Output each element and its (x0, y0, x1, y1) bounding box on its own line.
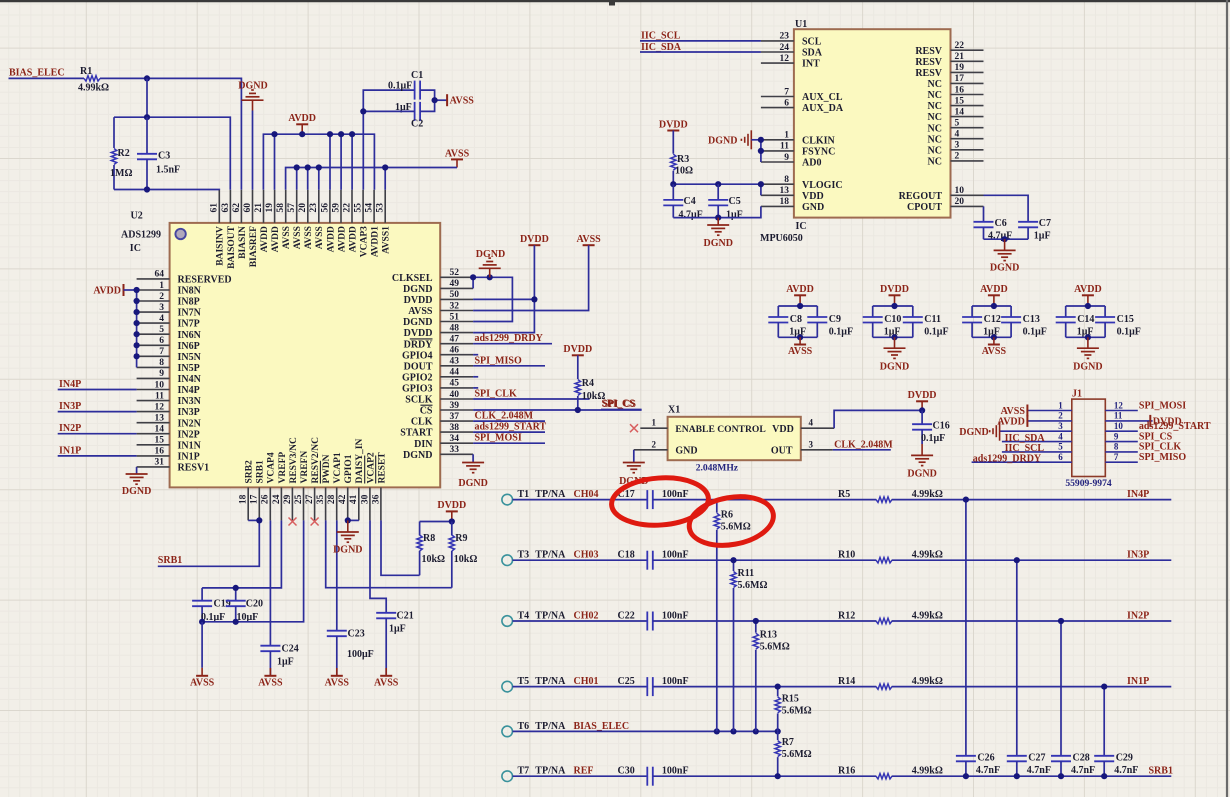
wire GPIO1 pin42 / DAISY_IN pin41 to DGND (348, 519, 359, 521)
J1 pin 5 (IIC_SCL) (1002, 442, 1072, 452)
svg-text:12: 12 (1114, 400, 1124, 410)
svg-text:IN8N: IN8N (178, 286, 202, 297)
net IIC_SDA label+wire (640, 42, 761, 53)
svg-text:T5: T5 (518, 676, 530, 687)
junction (199, 619, 205, 625)
svg-text:AVDD: AVDD (337, 226, 347, 252)
svg-text:TP/NA: TP/NA (535, 721, 566, 732)
svg-text:4: 4 (955, 130, 960, 140)
U2 pin 23 AVSS (top) (309, 190, 325, 249)
svg-text:R11: R11 (738, 568, 755, 579)
junction (382, 164, 388, 170)
svg-text:24: 24 (272, 494, 282, 504)
svg-text:10Ω: 10Ω (675, 166, 693, 177)
svg-text:AUX_DA: AUX_DA (802, 103, 844, 114)
svg-text:21: 21 (955, 52, 965, 62)
svg-text:13: 13 (155, 414, 165, 424)
svg-text:AVSS: AVSS (982, 346, 1007, 357)
svg-text:1: 1 (1058, 400, 1063, 410)
svg-text:C12: C12 (984, 314, 1001, 325)
junction (575, 407, 581, 413)
U2 pin 57 AVSS (top) (287, 190, 303, 249)
wire DGND to CLKIN bus (751, 139, 761, 141)
U2 pin 59 AVDD (top) (331, 190, 347, 252)
wire C4/C5 ground rail to GND pin18 (673, 206, 761, 217)
junction (753, 728, 759, 734)
svg-text:IN5N: IN5N (178, 352, 202, 363)
svg-text:DGND: DGND (959, 427, 988, 438)
svg-text:IN3P: IN3P (59, 401, 81, 412)
svg-text:R8: R8 (423, 533, 435, 544)
U2 pin 19 AVDD (top) (265, 190, 281, 253)
wire REGOUT pin10 to C7 (984, 195, 1029, 222)
J1 pin 12 (SPI_MOSI) (1105, 400, 1138, 410)
svg-text:C22: C22 (618, 611, 635, 622)
U2 pin 60 BIASREF (top) (243, 190, 259, 267)
J1 pin 2 (AVDD) (1027, 411, 1071, 421)
resistor R15 5.6M vertical (775, 687, 812, 732)
svg-text:VCAP4: VCAP4 (267, 452, 277, 483)
power AVSS at J1 pin1 (1026, 405, 1028, 417)
window right edge (1226, 0, 1228, 797)
capacitor C5 (708, 184, 743, 220)
wire DVDD rail R8/R9 (420, 521, 452, 523)
svg-text:SPI_MOSI: SPI_MOSI (1139, 400, 1186, 411)
svg-text:CPOUT: CPOUT (907, 202, 942, 213)
U2 pin 37 CLK (right) (411, 412, 473, 428)
svg-text:RESET: RESET (377, 452, 387, 484)
resistor R12 4.99k (838, 611, 943, 624)
U1 pin 2 NC (right) (928, 152, 984, 168)
svg-text:AUX_CL: AUX_CL (802, 92, 843, 103)
wire BIAS_ELEC to R1 (9, 77, 85, 79)
svg-text:9: 9 (1114, 431, 1119, 441)
svg-text:IN4P: IN4P (1127, 489, 1149, 500)
U2 pin 8 IN5P (left) (137, 358, 200, 374)
junction (449, 518, 455, 524)
junction (305, 164, 311, 170)
junction (233, 619, 239, 625)
svg-text:51: 51 (450, 312, 460, 322)
capacitor C2 (395, 102, 423, 130)
U2 pin 15 IN1N (left) (137, 436, 202, 452)
svg-text:14: 14 (155, 425, 165, 435)
svg-text:C4: C4 (684, 196, 696, 207)
svg-text:5.6MΩ: 5.6MΩ (721, 522, 751, 533)
J1 pin 7 (SPI_MISO) (1105, 452, 1138, 462)
svg-text:ADS1299: ADS1299 (121, 229, 161, 240)
svg-text:2: 2 (159, 292, 164, 302)
svg-text:61: 61 (210, 203, 220, 213)
U2 pin 17 SRB1 (bottom) (250, 460, 266, 520)
svg-text:AVDD: AVDD (326, 226, 336, 252)
capacitor C23 (VCAP1 pin28) (327, 520, 374, 675)
capacitor C28 4.7nF (1051, 753, 1095, 777)
power DGND below C4/C5 (703, 218, 732, 249)
capacitor C13 (1001, 306, 1047, 338)
wire C30 to R16 (653, 775, 877, 777)
power DGND antenna (CLKIN/FSYNC/AD0) (708, 130, 751, 149)
svg-text:DVDD: DVDD (404, 328, 433, 339)
svg-text:IN6N: IN6N (178, 330, 202, 341)
svg-text:OUT: OUT (771, 445, 793, 456)
svg-text:SPI_CLK: SPI_CLK (475, 389, 517, 400)
capacitor C3 (137, 117, 180, 189)
svg-text:VCAP2: VCAP2 (366, 452, 376, 483)
svg-text:C25: C25 (618, 676, 635, 687)
svg-text:18: 18 (780, 197, 790, 207)
svg-text:44: 44 (450, 368, 460, 378)
power DGND below (880, 337, 909, 372)
wire T1 to C17 (513, 499, 648, 501)
U2 pin 32 AVSS (right) (408, 301, 473, 317)
svg-text:PWDN: PWDN (322, 454, 332, 483)
junction (758, 137, 764, 143)
svg-text:AVSS1: AVSS1 (382, 226, 392, 254)
svg-text:BAISINV: BAISINV (216, 226, 226, 266)
svg-text:24: 24 (780, 43, 790, 53)
svg-text:IN4P: IN4P (178, 385, 200, 396)
J1 pin 4 (IIC_SDA) (1002, 431, 1072, 441)
junction (531, 296, 537, 302)
power DGND (below RESV1 pin31) (122, 467, 151, 497)
svg-text:C26: C26 (977, 753, 994, 764)
U2 pin 36 RESET (bottom) (371, 452, 387, 521)
svg-text:10kΩ: 10kΩ (454, 554, 478, 565)
power AVSS below C21 (380, 675, 392, 677)
capacitor C11 (903, 306, 949, 338)
wire R2/C3 top rail to BAISOUT pin63 (114, 117, 230, 190)
U1 pin 12 INT (left) (761, 54, 820, 70)
capacitor C29 4.7nF (1094, 753, 1138, 777)
svg-text:IN2P: IN2P (59, 423, 81, 434)
svg-text:55: 55 (353, 203, 363, 213)
wire AVSS to pin32 (473, 245, 588, 310)
wire VREFN pin25 to C19/C20 bottom rail (202, 520, 304, 621)
junction (797, 303, 803, 309)
svg-text:U1: U1 (795, 19, 807, 30)
svg-text:T1: T1 (518, 489, 530, 500)
wire C1/C2 left vertical (363, 110, 414, 112)
U2 pin 7 IN5N (left) (137, 347, 202, 363)
svg-text:34: 34 (450, 434, 460, 444)
U2 pin 39 CS (right) (420, 401, 473, 417)
svg-text:DGND: DGND (403, 284, 432, 295)
svg-text:22: 22 (342, 203, 352, 213)
power AVSS (right of C1/C2) (446, 94, 448, 106)
svg-text:DGND: DGND (880, 362, 909, 373)
svg-text:IIC_SCL: IIC_SCL (641, 30, 681, 41)
power DVDD (above pin50 rail) (528, 244, 540, 246)
svg-text:28: 28 (327, 494, 337, 504)
junction (1101, 773, 1107, 779)
net SRB1 label+wire (158, 520, 259, 566)
U1 pin 23 SCL (left) (761, 32, 822, 48)
U2 pin 54 AVDD1 (top) (365, 190, 381, 257)
svg-text:AVDD: AVDD (980, 284, 1008, 295)
U2 pin 61 BAISINV (top) (210, 190, 226, 266)
power AVSS (above pin32 wire) (583, 244, 595, 246)
svg-text:4.7nF: 4.7nF (1027, 765, 1051, 776)
U1 pin 10 REGOUT (right) (899, 186, 984, 202)
svg-text:14: 14 (955, 107, 965, 117)
wire C28 column (1060, 621, 1062, 756)
svg-text:NC: NC (928, 134, 942, 145)
wire R2/C3 bottom rail to BAISINV pin61 (114, 189, 219, 191)
U2 pin 45 GPIO3 (right) (402, 379, 473, 395)
svg-text:C18: C18 (618, 550, 635, 561)
svg-text:4.99kΩ: 4.99kΩ (912, 489, 943, 500)
svg-text:4.7nF: 4.7nF (1071, 765, 1095, 776)
no-connect X on X1 pin1 (630, 424, 638, 432)
svg-text:32: 32 (450, 301, 460, 311)
net CLK_2.048M label+wire (473, 411, 545, 422)
capacitor C18 100nF (618, 550, 689, 570)
wire bottom rail (972, 336, 1011, 338)
U1 pin 5 NC (right) (928, 119, 984, 135)
X1 pin 2 GND (634, 439, 698, 456)
svg-text:58: 58 (276, 203, 286, 213)
svg-text:AVSS: AVSS (190, 677, 215, 688)
svg-text:NC: NC (928, 112, 942, 123)
op-amp U2 ADS1299 IC body (170, 223, 441, 488)
svg-text:4.99kΩ: 4.99kΩ (912, 676, 943, 687)
svg-text:SRB2: SRB2 (245, 460, 255, 483)
power AVDD above C14/C15 (1082, 294, 1094, 296)
U2 pin 18 SRB2 (bottom) (239, 460, 255, 520)
svg-text:4.99kΩ: 4.99kΩ (912, 766, 943, 777)
svg-text:J1: J1 (1072, 389, 1082, 400)
wire VCAP2 pin30 to C21 (370, 520, 386, 612)
svg-text:54: 54 (365, 203, 375, 213)
red highlight ellipse around C17 (610, 475, 710, 529)
resistor R1 (78, 66, 109, 94)
U2 pin 11 IN3N (left) (137, 391, 202, 407)
wire R1 to BIASIN pin62 (100, 78, 241, 189)
U2 pin 38 START (right) (400, 423, 473, 439)
wire top rail (873, 305, 913, 307)
svg-text:100nF: 100nF (662, 676, 689, 687)
U2 pin 12 IN3P (left) (137, 402, 200, 418)
wire AVDD rail taps to pins 19,56,59,22 (274, 134, 276, 190)
svg-text:IN8P: IN8P (178, 297, 200, 308)
svg-text:1: 1 (159, 281, 164, 291)
wire AVSS rail (286, 168, 457, 190)
svg-text:17: 17 (955, 74, 965, 84)
svg-text:R14: R14 (838, 676, 855, 687)
J1 pin 10 (ads1299_START) (1105, 421, 1138, 431)
svg-text:100nF: 100nF (662, 489, 689, 500)
J1 pin 11 (DVDD) (1105, 411, 1152, 421)
svg-text:19: 19 (955, 63, 965, 73)
svg-text:C2: C2 (411, 119, 423, 130)
wire C25 to R14 (653, 686, 877, 688)
U2 pin 26 VCAP4 (bottom) (261, 452, 277, 520)
svg-text:55909-9974: 55909-9974 (1065, 478, 1112, 489)
wire C27 column (1016, 560, 1018, 756)
svg-text:SDA: SDA (802, 48, 823, 59)
svg-text:1μF: 1μF (1077, 327, 1094, 338)
U2 pin 35 PWDN (bottom) (316, 454, 332, 520)
svg-text:53: 53 (376, 203, 386, 213)
svg-text:C7: C7 (1039, 218, 1051, 229)
svg-text:X1: X1 (668, 405, 680, 416)
U1 pin 7 AUX_CL (left) (761, 87, 843, 103)
U2 pin 3 IN7N (left) (137, 303, 202, 319)
U2 pin 62 BIASIN (top) (232, 190, 248, 259)
svg-text:GPIO4: GPIO4 (402, 350, 433, 361)
svg-text:AVDD: AVDD (93, 286, 121, 297)
U1 pin 22 RESV (right) (915, 41, 983, 57)
svg-text:CH04: CH04 (574, 489, 599, 500)
svg-text:TP/NA: TP/NA (535, 489, 566, 500)
no-connect X pin29 (289, 518, 297, 526)
svg-text:C1: C1 (411, 70, 423, 81)
svg-text:60: 60 (243, 203, 253, 213)
U2 pin 1 IN8N (left) (137, 281, 202, 297)
wire VCAP3 pin55 to C1/C2 (363, 90, 414, 190)
svg-text:DGND: DGND (458, 478, 487, 489)
svg-text:VDD: VDD (802, 191, 824, 202)
junction (963, 773, 969, 779)
wire T3 to C18 (513, 559, 648, 561)
svg-text:R13: R13 (760, 630, 777, 641)
svg-text:DGND: DGND (703, 238, 732, 249)
junction (134, 353, 140, 359)
svg-text:5.6MΩ: 5.6MΩ (738, 580, 768, 591)
U2 pin 20 AVSS (top) (298, 190, 314, 249)
U2 pin 10 IN4P (left) (137, 380, 200, 396)
svg-text:IN2P: IN2P (1127, 611, 1149, 622)
junction (134, 342, 140, 348)
svg-text:2: 2 (652, 439, 657, 449)
junction (360, 108, 366, 114)
svg-text:MPU6050: MPU6050 (760, 233, 803, 244)
svg-text:6: 6 (1058, 452, 1063, 462)
capacitor C26 4.7nF (956, 753, 1000, 777)
svg-text:C15: C15 (1117, 314, 1134, 325)
svg-text:11: 11 (780, 142, 789, 152)
svg-text:C11: C11 (924, 314, 941, 325)
svg-text:SPI_CS: SPI_CS (603, 399, 637, 410)
svg-text:RESV: RESV (915, 68, 942, 79)
svg-text:TP/NA: TP/NA (535, 676, 566, 687)
svg-text:7: 7 (159, 347, 164, 357)
net IN3P label+wire (58, 401, 137, 412)
svg-text:SRB1: SRB1 (256, 460, 266, 483)
svg-text:59: 59 (331, 203, 341, 213)
junction (256, 517, 262, 523)
junction (345, 517, 351, 523)
svg-text:RESV3/NC: RESV3/NC (289, 437, 299, 484)
wire R16 to right (892, 775, 1172, 777)
wire top rail (778, 305, 817, 307)
svg-text:IN1N: IN1N (178, 440, 202, 451)
resistor R11 5.6M vertical (731, 560, 768, 731)
svg-text:RESV1: RESV1 (178, 463, 210, 474)
svg-text:38: 38 (450, 423, 460, 433)
wire C18 to R10 (653, 559, 877, 561)
svg-text:IN3P: IN3P (1127, 550, 1149, 561)
junction (144, 114, 150, 120)
net SPI_CS label+wire CS pin39 (473, 398, 641, 410)
svg-text:17: 17 (250, 494, 260, 504)
capacitor C16 (912, 410, 950, 444)
svg-text:2.048MHz: 2.048MHz (696, 463, 739, 474)
svg-text:U2: U2 (131, 210, 143, 221)
svg-text:SPI_MISO: SPI_MISO (475, 355, 522, 366)
svg-text:3: 3 (809, 439, 814, 449)
svg-text:20: 20 (298, 203, 308, 213)
wire T6 bias row (513, 730, 778, 732)
svg-text:8: 8 (784, 175, 789, 185)
net IIC_SCL label+wire (640, 30, 761, 41)
wire C1/C2 right vertical to AVSS (420, 90, 435, 111)
power DVDD above C10/C11 (889, 294, 901, 296)
svg-text:R4: R4 (582, 378, 594, 389)
svg-text:C20: C20 (246, 599, 263, 610)
X1 pin 3 OUT (771, 439, 833, 456)
svg-text:IN3N: IN3N (178, 396, 202, 407)
resistor R16 4.99k (838, 766, 943, 779)
svg-text:ENABLE CONTROL: ENABLE CONTROL (675, 424, 765, 435)
U2 pin 56 AVDD (top) (320, 190, 336, 253)
svg-text:R6: R6 (721, 510, 733, 521)
wire R10 to right (892, 559, 1172, 561)
U2 pin 52 CLKSEL (right) (392, 268, 473, 284)
svg-text:AVSS: AVSS (258, 677, 283, 688)
svg-text:45: 45 (450, 379, 460, 389)
junction (891, 334, 897, 340)
svg-text:DOUT: DOUT (404, 361, 433, 372)
svg-text:1MΩ: 1MΩ (110, 168, 132, 179)
junction (1014, 773, 1020, 779)
svg-text:CH03: CH03 (574, 550, 599, 561)
test point T6 (502, 721, 629, 737)
wire DVDD to pins 50,48 (473, 245, 534, 332)
U1 pin 1 CLKIN (left) (761, 131, 836, 147)
svg-text:R5: R5 (838, 489, 850, 500)
svg-text:DAISY_IN: DAISY_IN (355, 438, 365, 483)
U2 pin 58 AVSS (top) (276, 190, 292, 249)
svg-text:REGOUT: REGOUT (899, 191, 943, 202)
svg-text:RESV2/NC: RESV2/NC (311, 437, 321, 484)
svg-text:ads1299_DRDY: ads1299_DRDY (973, 453, 1042, 464)
resistor R13 5.6M vertical (753, 621, 790, 731)
wire C29 column (1103, 687, 1105, 756)
svg-text:C23: C23 (348, 629, 365, 640)
U2 pin 22 AVDD (top) (342, 190, 358, 253)
svg-text:7: 7 (1114, 452, 1119, 462)
U1 pin 16 NC (right) (928, 85, 984, 101)
svg-text:BAISOUT: BAISOUT (227, 225, 237, 268)
power DGND below (1073, 337, 1102, 372)
svg-text:27: 27 (305, 494, 315, 504)
svg-text:NC: NC (928, 90, 942, 101)
net SPI_CLK label+wire (473, 389, 589, 400)
svg-text:2: 2 (1058, 411, 1063, 421)
svg-text:42: 42 (338, 494, 348, 504)
svg-text:4.99kΩ: 4.99kΩ (912, 550, 943, 561)
svg-text:8: 8 (159, 358, 164, 368)
junction (753, 618, 759, 624)
svg-text:52: 52 (450, 268, 460, 278)
junction (144, 75, 150, 81)
power DGND below GPIO1 (333, 520, 362, 555)
capacitor C27 4.7nF (1007, 753, 1051, 777)
junction (134, 331, 140, 337)
junction (1058, 618, 1064, 624)
